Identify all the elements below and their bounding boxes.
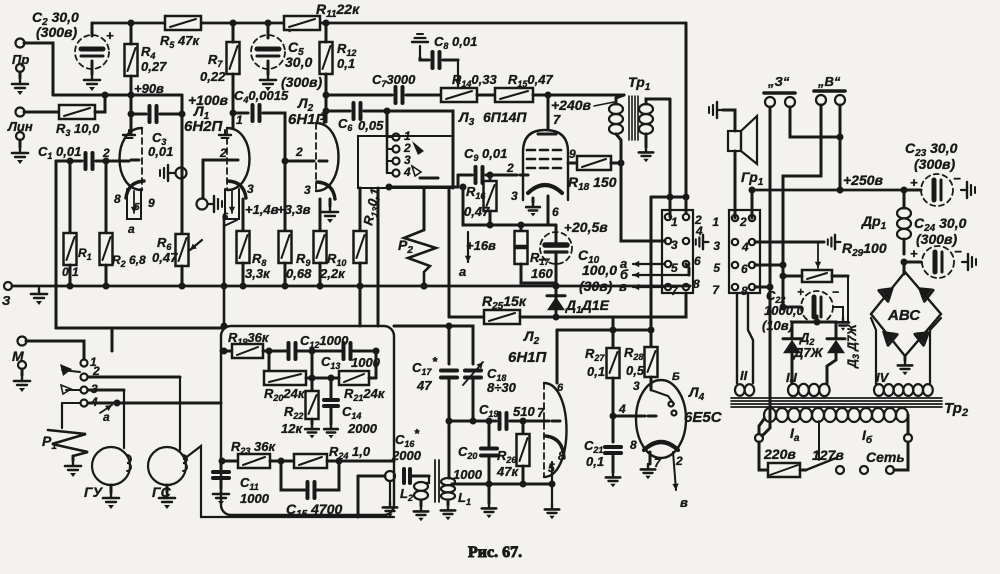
svg-text:5: 5 — [713, 261, 720, 275]
terminals Z — [765, 97, 775, 107]
resistor R16 — [489, 175, 492, 181]
tube L2b envelope — [544, 383, 567, 477]
capacitor C2 electrolytic — [75, 35, 109, 69]
ground below C5 — [267, 61, 270, 74]
wire terminal V1 — [783, 105, 821, 265]
fuse — [759, 442, 768, 470]
wire X2 pin2 up — [751, 190, 754, 218]
tube L4 target electrode — [651, 390, 674, 404]
wire pin5 arrow a — [633, 261, 665, 267]
capacitor C4 — [233, 112, 248, 115]
capacitor C23 electrolytic — [904, 189, 921, 192]
tube L4 envelope — [636, 380, 686, 458]
wire R25 to anode bus — [612, 317, 615, 330]
wire row3 to GU — [88, 389, 124, 392]
svg-text:R20​24к: R20​24к — [264, 386, 306, 403]
terminal Lin — [16, 108, 25, 117]
transformer Tp2 primary — [764, 408, 908, 422]
speaker Gr1 — [728, 131, 741, 151]
wire +90v line — [53, 94, 182, 97]
wire switch rows — [62, 370, 80, 372]
resistor R18 — [568, 162, 577, 165]
ground below C20 — [482, 503, 496, 518]
svg-text:2: 2 — [675, 454, 683, 468]
svg-text:+16в: +16в — [466, 238, 496, 253]
svg-text:C1​ 0,01: C1​ 0,01 — [38, 144, 81, 161]
tube L4 ground — [649, 452, 652, 464]
resistor R12 — [320, 42, 333, 74]
connector X1 pin4 ground — [696, 235, 709, 249]
wire rail right corner down — [685, 23, 688, 197]
capacitor C20 — [488, 421, 491, 447]
svg-text:0,1: 0,1 — [62, 265, 79, 279]
svg-text:+: + — [910, 175, 918, 190]
svg-text:−: − — [832, 285, 839, 299]
resistor R10 — [319, 199, 322, 231]
capacitor C16 — [404, 469, 410, 483]
wire L2a grid — [285, 160, 314, 163]
svg-text:4: 4 — [741, 240, 749, 254]
ground below M — [18, 361, 26, 369]
transformer Tp1 secondary ground — [639, 147, 653, 162]
wire X2 pin6 stub — [755, 264, 783, 267]
capacitor C15 — [281, 461, 305, 490]
switch S2 contacts — [393, 134, 400, 141]
wire y328 strap line — [56, 327, 224, 330]
wire Tp1 secondary to connector — [669, 99, 672, 217]
svg-text:+: + — [564, 220, 572, 235]
pickup GS wire — [179, 377, 181, 450]
svg-text:220в: 220в — [763, 446, 796, 462]
svg-text:6: 6 — [552, 205, 559, 219]
potentiometer P2 zigzag — [423, 188, 426, 230]
terminal ground bus left — [4, 282, 12, 290]
wire y330 anode bus — [557, 329, 651, 332]
pickup GU ground — [110, 485, 113, 492]
wire terminal Z2 — [790, 107, 840, 137]
svg-text:в: в — [680, 495, 688, 510]
capacitor C24 electrolytic — [904, 261, 921, 264]
wire pin4 L4 — [613, 415, 645, 418]
svg-text:Д3​ Д7Ж: Д3​ Д7Ж — [845, 323, 861, 368]
wire y484 bus — [452, 483, 552, 486]
svg-text:R2​ 6,8: R2​ 6,8 — [112, 253, 146, 269]
switch S2 arm arrows — [412, 141, 424, 155]
svg-text:„В“: „В“ — [817, 74, 841, 89]
svg-text:R14​0,33: R14​0,33 — [452, 72, 497, 89]
wire cathode line L1b down to box — [223, 219, 226, 326]
svg-text:6: 6 — [741, 262, 748, 276]
resistor R9 — [284, 161, 287, 231]
svg-text:R21​24к: R21​24к — [344, 386, 386, 403]
tube L1 half-b inner shield ground — [219, 130, 231, 138]
ground below C11 — [220, 481, 223, 488]
tube L2a grid dash — [319, 160, 327, 163]
svg-text:100,0: 100,0 — [582, 262, 617, 278]
ground below C21 — [612, 456, 615, 472]
power switch — [800, 469, 806, 472]
svg-text:+: + — [106, 28, 114, 43]
diode D3 — [827, 339, 845, 353]
primary tap — [818, 421, 820, 460]
wire to L3 anode — [547, 95, 550, 130]
transformer Tp2 winding II — [736, 293, 738, 383]
resistor R7 — [227, 42, 240, 74]
svg-text:1000: 1000 — [240, 491, 270, 506]
transformer core L1/L2 — [434, 460, 436, 502]
connector X1 frame — [662, 210, 693, 293]
svg-text:8: 8 — [114, 192, 121, 206]
tube L1 half-b envelope — [227, 128, 250, 190]
svg-text:1: 1 — [712, 215, 719, 229]
svg-text:II: II — [740, 368, 748, 383]
svg-text:0,5: 0,5 — [626, 363, 645, 378]
tube L3 envelope — [523, 130, 568, 200]
svg-text:6П14П: 6П14П — [483, 109, 527, 125]
wire R27 bottom to C21 — [612, 378, 615, 442]
switch S1 contacts — [81, 360, 88, 367]
capacitor C3 — [131, 113, 146, 116]
resistor R14 — [441, 88, 477, 102]
svg-text:Рис. 67.: Рис. 67. — [468, 544, 522, 561]
svg-text:+240в: +240в — [551, 97, 592, 113]
svg-text:(300в): (300в) — [36, 24, 77, 40]
svg-text:6Е5С: 6Е5С — [684, 409, 723, 426]
svg-text:3,3к: 3,3к — [245, 266, 271, 281]
svg-text:+100в: +100в — [188, 92, 229, 108]
pickup GS ground — [166, 485, 169, 492]
wire cathode bus y=225 — [463, 187, 556, 225]
resistor R22 — [311, 351, 314, 391]
svg-text:Б: Б — [672, 371, 680, 383]
wire row2 to GS — [88, 376, 180, 379]
svg-text:0,1: 0,1 — [587, 364, 605, 379]
switch S1 arm arrows — [60, 364, 72, 376]
svg-text:3: 3 — [511, 189, 518, 203]
tube L3 cathode lead — [547, 196, 550, 225]
svg-text:−: − — [538, 252, 546, 267]
wire R28 bottom to L4 — [650, 377, 653, 390]
svg-text:160: 160 — [531, 266, 553, 281]
capacitor C18 trimmer — [449, 326, 473, 364]
svg-text:а: а — [128, 222, 135, 236]
ground terminal below Pr — [16, 64, 24, 72]
tube L2a envelope — [316, 123, 339, 191]
svg-text:−: − — [953, 171, 961, 186]
diode D2 — [783, 339, 801, 353]
tube L4 cathode arc — [644, 442, 678, 450]
tube L2b cathode ground — [551, 462, 553, 504]
svg-text:ГУ: ГУ — [84, 484, 104, 500]
svg-text:(300в): (300в) — [914, 156, 955, 172]
jack J2 sideways ground — [208, 196, 222, 212]
capacitor C8 — [420, 58, 429, 60]
connector X2 pins — [732, 215, 738, 221]
tube L2a cathode — [317, 182, 335, 199]
transformer Tp2 winding IV — [874, 384, 933, 396]
wire C8 wiper arrow to R14 — [455, 60, 461, 86]
svg-text:1: 1 — [671, 215, 678, 229]
resistor R17 — [520, 225, 523, 231]
svg-text:3: 3 — [304, 183, 311, 197]
ground below R22 — [311, 419, 314, 424]
wire R20-R21 link — [306, 377, 339, 380]
tube L1 half-a inner shield ground — [123, 130, 135, 138]
svg-text:„З“: „З“ — [767, 74, 790, 89]
wire terminal Z1 down — [762, 107, 770, 436]
transformer Tp1 core — [628, 96, 630, 140]
ground below L1 — [441, 505, 455, 520]
svg-text:3: 3 — [713, 239, 720, 253]
resistor R28 — [650, 330, 653, 347]
resistor R27 — [612, 330, 615, 348]
resistor R8 — [242, 199, 245, 231]
ground bus symbol — [31, 288, 47, 305]
tone network box frame — [221, 326, 394, 515]
svg-text:III: III — [786, 370, 797, 385]
svg-text:6: 6 — [694, 254, 701, 268]
wire node a vertical — [181, 95, 184, 234]
wire X2 pin8 stub — [755, 286, 770, 289]
R29 wiper ground — [828, 235, 841, 249]
wire common to network — [88, 402, 221, 405]
svg-text:3: 3 — [633, 379, 640, 393]
svg-text:+250в: +250в — [843, 172, 884, 188]
transformer Tp1 secondary — [639, 104, 653, 134]
svg-text:5: 5 — [134, 202, 140, 213]
svg-text:З: З — [2, 293, 11, 308]
svg-text:0,47: 0,47 — [464, 204, 490, 219]
svg-text:(300в): (300в) — [916, 231, 957, 247]
ground below P1 — [72, 456, 75, 460]
ground below L2 — [420, 500, 423, 506]
svg-text:1: 1 — [236, 113, 243, 127]
svg-text:4: 4 — [403, 165, 411, 179]
resistor R15 — [477, 94, 495, 97]
svg-text:2,2к: 2,2к — [319, 266, 346, 281]
tube L2b cathode — [546, 436, 564, 458]
wire x651 down — [650, 197, 653, 330]
wire D2 D3 to winding III — [791, 354, 794, 383]
ground below C14 — [330, 407, 333, 424]
svg-text:C9​ 0,01: C9​ 0,01 — [464, 146, 507, 163]
jack J1 circle — [176, 168, 187, 179]
svg-text:0,1: 0,1 — [337, 56, 355, 71]
svg-text:C8​ 0,01: C8​ 0,01 — [434, 34, 477, 51]
wire box verticals down — [377, 188, 380, 326]
ground right of C23 — [961, 182, 975, 198]
pickup GU — [92, 447, 130, 485]
svg-text:6Н1П: 6Н1П — [508, 349, 548, 366]
wire box right vertical — [452, 136, 455, 188]
potentiometer P1 zigzag — [61, 403, 63, 428]
svg-text:47: 47 — [416, 378, 432, 393]
bridge rectifier ABC — [903, 262, 906, 274]
node rail junctions — [128, 20, 135, 27]
resistor R5 — [165, 16, 201, 30]
speaker jack symbol — [709, 102, 723, 118]
wire x783 down — [782, 265, 785, 307]
svg-text:C4​0,0015: C4​0,0015 — [234, 88, 289, 105]
svg-text:6Н2П: 6Н2П — [184, 118, 224, 135]
ground below Lin — [16, 132, 24, 140]
ground near C22 — [833, 307, 843, 318]
tube L1 half-a envelope — [120, 128, 143, 190]
svg-text:0,68: 0,68 — [286, 266, 312, 281]
wire switch common to volume — [389, 175, 458, 187]
tube L3 anode arc — [528, 185, 562, 193]
wire +250v rail — [752, 189, 904, 192]
tube L2a heater/cathode ground — [329, 199, 332, 206]
wire y197 jumper — [651, 196, 686, 199]
svg-text:АВС: АВС — [887, 307, 921, 324]
svg-text:2000: 2000 — [347, 421, 378, 436]
svg-text:2: 2 — [102, 146, 110, 160]
svg-text:3: 3 — [671, 238, 678, 252]
svg-text:0,1: 0,1 — [586, 454, 604, 469]
svg-text:+1,4в: +1,4в — [245, 202, 279, 217]
ground below antenna terminal — [389, 481, 391, 502]
svg-text:20,5в: 20,5в — [571, 219, 608, 235]
diode D1 — [555, 286, 558, 317]
wire rail drop to C2 — [91, 23, 94, 36]
connector X2 frame — [729, 210, 760, 293]
transformer Tp2 core — [731, 397, 942, 399]
svg-text:2: 2 — [295, 145, 303, 159]
resistor R4 — [125, 44, 138, 76]
capacitor C21 — [605, 447, 621, 453]
resistor R2 — [105, 161, 108, 233]
tube L1 half-a cathode — [126, 181, 144, 198]
choke Dr1 — [903, 190, 906, 208]
antenna terminal — [385, 471, 395, 481]
resistor R6 wiper arrow — [190, 240, 202, 250]
svg-text:510: 510 — [513, 404, 535, 419]
primary terminals — [755, 434, 763, 442]
capacitor C17 — [441, 371, 457, 378]
svg-text:2: 2 — [219, 146, 227, 160]
capacitor C22 electrolytic — [783, 306, 801, 309]
pickup GS — [148, 447, 186, 485]
resistor R26 — [522, 421, 525, 434]
wire x112 down to contact — [111, 328, 114, 351]
svg-text:9: 9 — [569, 147, 576, 161]
capacitor C10 electrolytic — [555, 225, 558, 243]
capacitor C1 — [56, 160, 82, 163]
ground right of C24 — [962, 254, 976, 270]
svg-text:8: 8 — [630, 438, 637, 452]
svg-text:0,22: 0,22 — [200, 69, 226, 84]
terminal Pr — [16, 39, 25, 48]
wire +240v — [533, 94, 624, 97]
svg-text:8: 8 — [693, 277, 700, 291]
svg-text:0,27: 0,27 — [141, 59, 167, 74]
tube L4 arrow v — [672, 452, 678, 490]
svg-text:+: + — [797, 285, 804, 299]
svg-text:2: 2 — [739, 215, 747, 229]
arrow a marker — [100, 405, 112, 413]
coil L1 — [448, 421, 451, 478]
capacitor C6 — [326, 110, 350, 113]
resistor R1 — [69, 161, 72, 233]
tube L1 half-b cathode — [228, 181, 246, 198]
wire grid line y421 — [449, 420, 496, 423]
svg-text:а: а — [103, 410, 110, 424]
svg-text:7: 7 — [553, 112, 561, 127]
svg-text:(10в): (10в) — [762, 318, 793, 333]
capacitor C7 — [326, 94, 392, 97]
wire R26 bottom — [522, 466, 525, 484]
capacitor C14 — [330, 378, 333, 399]
resistor R25 — [449, 316, 484, 319]
capacitor C9 — [458, 174, 472, 177]
tube L3 top cap — [538, 133, 556, 136]
tube L1 half-a heater — [127, 189, 141, 219]
svg-text:2000: 2000 — [391, 448, 422, 463]
wire R29 right down — [838, 276, 848, 322]
capacitor C11 — [220, 461, 223, 470]
svg-text:3: 3 — [247, 182, 254, 196]
coil L2 — [414, 482, 428, 500]
wire Pr to +90v line — [24, 43, 53, 95]
svg-text:5: 5 — [671, 261, 678, 275]
svg-text:1000: 1000 — [453, 467, 483, 482]
svg-text:4: 4 — [618, 402, 626, 416]
resistor R3 — [24, 111, 59, 114]
transformer Tp1 primary — [616, 95, 624, 104]
tube L1 half-b heater — [225, 189, 239, 219]
wire pin6 arrow b — [686, 264, 689, 275]
wire C6 to box corner — [387, 111, 453, 136]
svg-text:Д7Ж: Д7Ж — [793, 345, 824, 360]
wire X2 pin4 line — [755, 241, 824, 244]
ground below C2 — [91, 61, 94, 74]
svg-text:8: 8 — [558, 449, 565, 463]
transformer Tp2 winding III — [788, 384, 830, 396]
svg-text:IV: IV — [876, 370, 890, 385]
wire main ground bus — [12, 285, 690, 288]
svg-text:12к: 12к — [281, 421, 303, 436]
svg-text:2: 2 — [506, 161, 514, 175]
bridge diodes — [879, 282, 898, 301]
resistor R20 — [268, 351, 271, 378]
wire C1 down to switch — [55, 161, 58, 328]
wire pin8 return — [613, 293, 686, 317]
svg-text:8÷30: 8÷30 — [487, 380, 517, 395]
wire pin7 arrow v — [633, 284, 665, 290]
svg-text:30,0: 30,0 — [285, 54, 312, 70]
wire anode supply down — [621, 163, 665, 241]
wire winding IV to bridge — [871, 318, 876, 384]
terminals V — [816, 95, 826, 105]
switch box frame — [358, 136, 453, 188]
wire diodes top — [792, 322, 836, 338]
jack J2 circle — [197, 199, 208, 210]
bridge ground — [904, 356, 907, 360]
resistor R11 — [284, 16, 320, 30]
tube L1 half-b anode wire — [232, 76, 235, 128]
pickup GU wire up — [123, 390, 125, 448]
svg-text:+: + — [910, 246, 918, 261]
wire top B+ rail — [92, 22, 686, 25]
capacitor C5 electrolytic — [267, 23, 270, 38]
svg-text:−: − — [954, 244, 962, 259]
svg-text:R15​0,47: R15​0,47 — [508, 72, 553, 89]
svg-text:0,47: 0,47 — [152, 250, 178, 265]
svg-text:6: 6 — [557, 382, 564, 394]
svg-text:47к: 47к — [496, 464, 519, 479]
speaker wire down — [734, 151, 737, 218]
